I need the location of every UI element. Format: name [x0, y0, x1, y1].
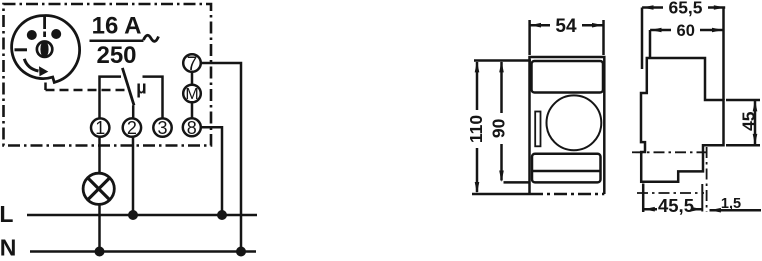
svg-text:M: M [185, 86, 198, 103]
enclosure dash-dot border [4, 4, 212, 146]
wire terminal 1 down to lamp [98, 137, 101, 174]
wire terminal 7 to N [201, 63, 241, 252]
front view slot [535, 112, 540, 147]
dimension 45 [726, 99, 760, 102]
motor M [183, 85, 201, 103]
terminal 2 [123, 118, 141, 136]
svg-text:54: 54 [555, 16, 577, 37]
mechanical linkage (dashed) [46, 89, 128, 92]
svg-text:2: 2 [127, 118, 137, 138]
wire terminal 8 to L [201, 127, 222, 215]
junction dot 7-N [236, 247, 246, 257]
svg-text:8: 8 [187, 118, 197, 138]
rail bottom dash-dot line [637, 192, 704, 194]
front view bottom line [472, 193, 530, 196]
rating label 16A/250~ [92, 13, 142, 70]
dial stem [44, 83, 47, 91]
dimension 45,5 [643, 208, 702, 211]
svg-text:µ: µ [136, 77, 146, 97]
svg-text:110: 110 [466, 115, 486, 143]
svg-text:45,5: 45,5 [658, 195, 694, 216]
svg-text:45: 45 [739, 111, 759, 131]
wire blade to terminal 2 [132, 105, 135, 118]
dial top tick [43, 16, 46, 38]
lamp [83, 173, 114, 204]
terminal 8 [183, 118, 201, 136]
svg-text:L: L [0, 201, 13, 227]
svg-text:65,5: 65,5 [668, 0, 702, 18]
line N [30, 250, 256, 253]
dimension 54 [528, 20, 531, 55]
dial center knob [37, 42, 52, 57]
front view dial circle [547, 95, 602, 150]
dimension 1,5 [710, 209, 762, 212]
dial left tick [15, 48, 28, 51]
wire lamp to N [98, 205, 101, 252]
front view outer housing [530, 57, 605, 194]
svg-text:250: 250 [96, 42, 136, 69]
dimension 60 [650, 29, 723, 32]
wire from terminal 1 up to contact [100, 77, 122, 119]
junction dot 8-L [217, 210, 227, 220]
line L [27, 214, 257, 217]
svg-text:3: 3 [157, 118, 167, 138]
wire from terminal 3 up to contact [143, 77, 163, 119]
svg-text:60: 60 [677, 22, 695, 40]
terminal 3 [153, 118, 171, 136]
tilde ~ [144, 35, 159, 41]
front view terminal block [532, 154, 601, 183]
dimension 65,5 [642, 6, 725, 9]
svg-text:N: N [0, 235, 16, 261]
dial left dot [27, 30, 37, 40]
svg-text:1: 1 [95, 118, 105, 138]
wire terminal 2 down to L [132, 137, 135, 215]
terminal 1 [91, 118, 109, 136]
junction dot 2-L [128, 210, 138, 220]
dial right dot [51, 29, 61, 39]
rear reference dash-dot vertical [706, 147, 708, 212]
wire M to 8 [191, 102, 194, 118]
front view top panel [532, 61, 604, 93]
svg-text:90: 90 [489, 118, 509, 138]
dimension 90 [500, 62, 503, 181]
fraction line [90, 39, 144, 42]
timer dial symbol outline [12, 16, 80, 83]
dial rotation arrow [24, 59, 38, 71]
svg-text:16 A: 16 A [92, 13, 142, 40]
dimension 110 [474, 59, 531, 62]
switch blade [122, 68, 134, 105]
svg-text:1,5: 1,5 [721, 196, 741, 212]
terminal 7 [183, 54, 201, 72]
wire 7 to M [191, 72, 194, 85]
side view profile [641, 58, 724, 182]
junction dot lamp-N [95, 247, 105, 257]
terminal block inner line [532, 170, 601, 173]
rail center line horizontal [632, 151, 706, 153]
dial knob slot [40, 41, 48, 58]
